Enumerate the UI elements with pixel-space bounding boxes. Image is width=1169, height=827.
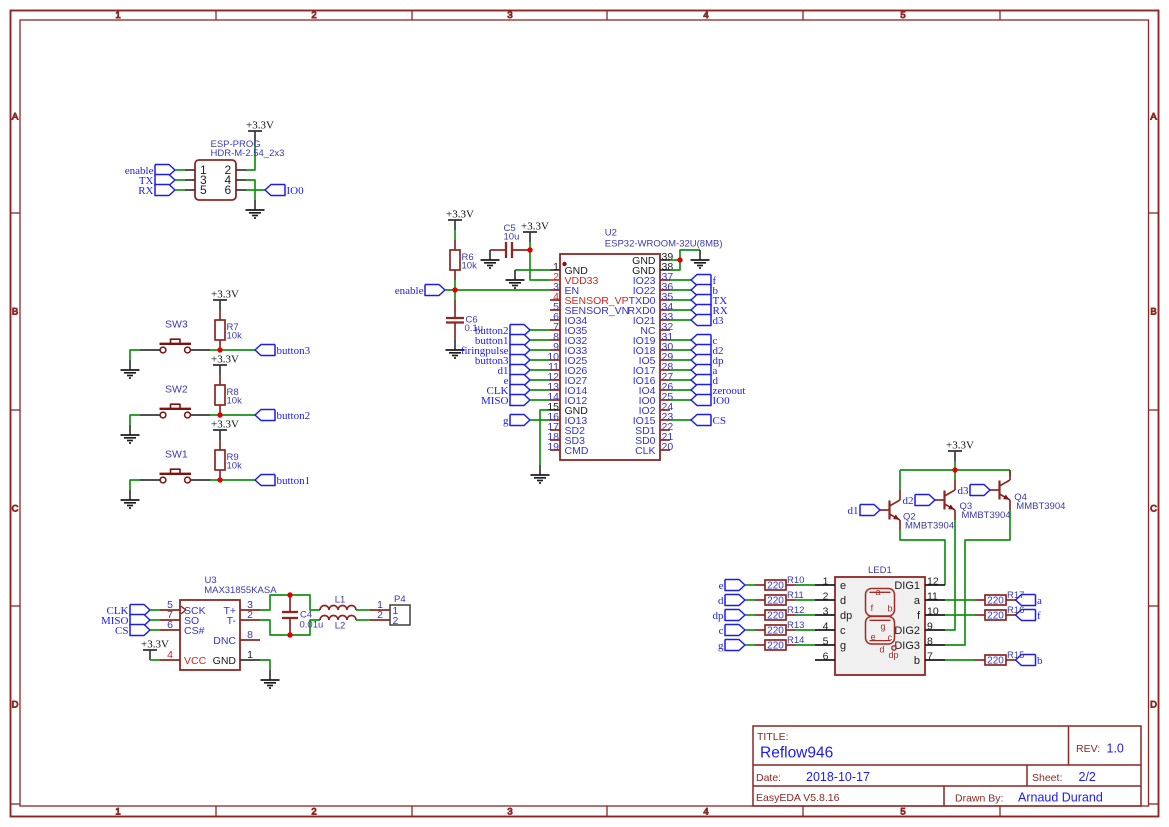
svg-text:2/2: 2/2 [1079,770,1096,784]
net flag TX [691,295,727,307]
svg-text:button1: button1 [277,475,311,487]
svg-text:220: 220 [987,655,1004,666]
svg-text:a: a [1037,595,1042,607]
svg-text:MMBT3904: MMBT3904 [1016,501,1065,512]
svg-text:220: 220 [987,595,1004,606]
wire [260,660,270,670]
svg-text:b: b [914,655,920,667]
svg-text:3: 3 [507,807,512,818]
resistor R10 [755,575,804,591]
svg-text:c: c [840,625,846,637]
node T- [287,632,292,637]
svg-text:220: 220 [767,625,784,636]
svg-text:7: 7 [927,651,933,663]
wire [670,399,691,401]
resistor R13 [755,620,804,636]
svg-text:dp: dp [713,610,725,622]
net flag button2 [475,325,530,337]
net flag button3 [255,345,311,357]
svg-text:R16: R16 [1007,605,1024,616]
wire [745,629,755,631]
capacitor C6 0.1u [446,300,483,340]
wire [900,530,945,585]
resistor R16 [975,605,1024,621]
wire [130,480,140,490]
ground (U2 pin15) [531,465,550,483]
wire +3.3V rail [900,469,1010,471]
svg-text:DNC: DNC [213,635,236,647]
net flag TX [139,175,175,187]
svg-text:SW3: SW3 [165,319,188,331]
svg-text:20: 20 [662,441,674,453]
wire [745,614,755,616]
net flag f [691,275,717,287]
node T+ [287,592,292,597]
node +3.3V rail [952,467,957,472]
net flag button3 [475,355,530,367]
wire [945,510,1010,645]
wire [945,614,975,616]
svg-text:10: 10 [927,606,939,618]
svg-text:10u: 10u [504,232,520,243]
svg-text:220: 220 [767,595,784,606]
net flag dp [713,610,746,622]
svg-text:g: g [840,640,846,652]
wire [530,379,550,381]
wire [260,595,320,610]
ground (SW1) [121,490,140,508]
net flag MISO [101,615,150,627]
svg-text:GND: GND [213,655,237,667]
svg-text:10k: 10k [227,461,243,472]
svg-text:A: A [1150,112,1157,123]
ground (ESP-PROG pin4/6) [246,200,265,218]
svg-text:d1: d1 [848,505,859,517]
wire [246,180,255,200]
wire [670,369,691,371]
svg-text:T-: T- [227,615,237,627]
+3.3V power (R8) [211,354,239,376]
wire [530,399,550,401]
ground (U2 pin1) [506,270,525,288]
svg-text:button2: button2 [277,410,311,422]
display LED1 (3-digit 7-segment) [815,565,945,675]
svg-text:10k: 10k [227,396,243,407]
svg-text:MISO: MISO [481,395,509,407]
inductor L2 [320,616,356,632]
resistor R11 [755,590,804,606]
wire [530,339,550,341]
net flag d [718,595,745,607]
net flag CS [115,625,150,637]
switch SW1 [140,449,210,483]
svg-text:CS: CS [115,625,128,637]
wire [670,289,691,291]
svg-text:SW1: SW1 [165,449,188,461]
svg-text:220: 220 [767,640,784,651]
header ESP-PROG HDR-M-2.54_2x3 [185,139,284,200]
wire [899,470,901,490]
wire [670,319,691,321]
capacitor C5 10u [490,223,530,258]
ground (SW2) [121,425,140,443]
resistor R12 [755,605,804,621]
svg-text:DIG1: DIG1 [894,580,920,592]
wire [670,419,691,421]
transistor Q2 [880,490,954,532]
wire [670,259,680,261]
transistor Q3 [935,480,1011,521]
svg-text:L2: L2 [335,621,346,632]
wire [530,419,550,421]
svg-text:f: f [1037,610,1041,622]
svg-text:L1: L1 [335,595,346,606]
net flag b [691,285,719,297]
svg-text:B: B [12,307,18,318]
resistor R9 [215,440,242,480]
wire [530,369,550,371]
svg-text:6: 6 [167,619,173,631]
net flag d3 [958,485,991,497]
svg-text:+3.3V: +3.3V [211,419,239,431]
svg-text:8: 8 [927,636,933,648]
wire [175,179,185,181]
svg-text:C: C [1150,504,1157,515]
wire [175,189,185,191]
wire [796,629,816,631]
net flag firingpulse [461,345,530,357]
svg-text:3: 3 [507,10,512,21]
svg-text:19: 19 [547,441,559,453]
net flag d1 [498,365,531,377]
wire [945,520,955,630]
svg-text:2: 2 [247,609,253,621]
wire [796,614,816,616]
wire [945,659,975,661]
svg-text:g: g [718,640,724,652]
svg-text:2018-10-17: 2018-10-17 [806,770,870,784]
wire [210,349,255,351]
net flag IO0 [691,395,730,407]
wire [954,461,956,470]
svg-text:HDR-M-2.54_2x3: HDR-M-2.54_2x3 [211,148,285,159]
svg-text:1: 1 [823,576,829,588]
wire [670,379,691,381]
svg-text:a: a [876,587,881,597]
+3.3V power (VDD33) [521,221,549,243]
svg-text:CLK: CLK [635,445,655,457]
svg-text:TITLE:: TITLE: [757,731,789,743]
svg-text:+3.3V: +3.3V [211,354,239,366]
svg-text:d: d [880,645,885,655]
wire [260,620,320,635]
net flag f [1016,610,1042,622]
node EN [452,287,457,292]
net flag net flag enable (EN) [395,285,445,297]
svg-text:220: 220 [767,580,784,591]
ground (SW3) [121,360,140,378]
svg-text:RX: RX [138,185,153,197]
net flag RX [691,305,728,317]
svg-text:d: d [718,595,724,607]
+3.3V power (R9) [211,419,239,441]
IC U2 ESP32-WROOM-32U(8MB) [547,228,722,461]
wire [130,415,140,425]
svg-text:SW2: SW2 [165,384,188,396]
svg-text:ESP32-WROOM-32U(8MB): ESP32-WROOM-32U(8MB) [605,238,723,249]
svg-text:IO0: IO0 [713,395,731,407]
svg-text:2: 2 [311,807,316,818]
wire [670,339,691,341]
wire [796,584,816,586]
connector P4 [370,594,410,627]
wire [356,609,370,611]
svg-text:g: g [881,622,886,632]
svg-text:Arnaud Durand: Arnaud Durand [1018,791,1103,805]
svg-text:CS#: CS# [184,625,205,637]
ground (U2 pins 38/39) [691,250,710,268]
wire [540,410,550,465]
net flag d1 [848,505,881,517]
svg-text:LED1: LED1 [868,565,892,576]
node button2 [217,412,222,417]
svg-text:d3: d3 [958,485,970,497]
wire [356,619,370,621]
node VDD33 [527,247,532,252]
svg-text:6: 6 [225,183,232,197]
resistor R15 [975,650,1024,666]
wire [945,599,975,601]
svg-text:e: e [719,580,724,592]
svg-text:1.0: 1.0 [1107,742,1124,756]
svg-text:5: 5 [823,636,829,648]
svg-text:+3.3V: +3.3V [141,639,169,651]
svg-text:e: e [840,580,846,592]
net flag RX [138,185,175,197]
wire [150,629,160,631]
net flag e [719,580,745,592]
wire [745,584,755,586]
resistor R14 [755,635,804,651]
net flag a [691,365,718,377]
svg-text:U2: U2 [605,228,617,239]
svg-text:e: e [871,632,876,642]
wire [246,189,265,191]
+3.3V power (R6) [446,209,474,231]
net flag CS [691,415,726,427]
svg-text:REV:: REV: [1076,743,1100,755]
net flag a [1016,595,1043,607]
resistor R6 [450,240,477,280]
svg-text:8: 8 [247,629,253,641]
wire [454,230,456,240]
wire [670,349,691,351]
svg-text:220: 220 [987,610,1004,621]
wire [175,169,185,171]
wire [796,644,816,646]
svg-text:d2: d2 [903,495,914,507]
wire [150,609,160,611]
svg-text:11: 11 [927,591,938,603]
wire [530,389,550,391]
wire [150,659,160,661]
+3.3V power (R7) [211,289,239,311]
net flag IO0 [265,185,304,197]
svg-text:d3: d3 [713,315,725,327]
svg-text:b: b [888,604,893,614]
wire [246,141,255,170]
net flag c [719,625,745,637]
wire [150,619,160,621]
net flag dp [691,355,724,367]
svg-text:5: 5 [900,10,905,21]
svg-text:R17: R17 [1007,590,1024,601]
svg-text:12: 12 [927,576,939,588]
net flag CLK [487,385,531,397]
svg-text:2: 2 [823,591,829,603]
net flag d3 [691,315,724,327]
svg-text:c: c [888,633,893,643]
svg-text:a: a [914,595,921,607]
svg-text:Drawn By:: Drawn By: [955,793,1003,805]
svg-text:CMD: CMD [565,445,589,457]
wire [670,260,680,270]
svg-text:4: 4 [703,807,708,818]
svg-text:Reflow946: Reflow946 [760,745,833,762]
resistor R17 [975,590,1024,606]
net flag enable [125,165,175,177]
wire [670,279,691,281]
svg-text:4: 4 [703,10,708,21]
node U2 GND [677,257,682,262]
svg-text:2: 2 [377,609,383,621]
svg-text:9: 9 [927,621,933,633]
svg-text:5: 5 [200,183,207,197]
switch SW2 [140,384,210,418]
wire [130,350,140,360]
net flag c [691,335,718,347]
net flag zeroout [691,385,745,397]
ground (U3 GND) [261,670,280,688]
svg-text:4: 4 [823,621,829,633]
svg-text:MAX31855KASA: MAX31855KASA [204,585,277,596]
net flag CLK [107,605,151,617]
svg-text:MMBT3904: MMBT3904 [905,521,954,532]
net flag e [504,375,530,387]
net flag button1 [255,475,310,487]
net flag button1 [475,335,530,347]
net flag MISO [481,395,530,407]
+3.3V power (U3 VCC) [141,639,169,661]
net flag d [691,375,719,387]
ground (C5) [481,250,500,268]
IC U3 MAX31855KASA [160,575,277,670]
svg-text:EasyEDA V5.8.16: EasyEDA V5.8.16 [756,792,840,804]
net flag b [1016,655,1044,667]
svg-text:dp: dp [840,610,852,622]
svg-text:2: 2 [311,10,316,21]
node button1 [217,477,222,482]
wire [515,269,550,271]
svg-text:enable: enable [395,285,424,297]
net flag g [503,415,530,427]
svg-text:+3.3V: +3.3V [946,440,974,452]
svg-text:Date:: Date: [756,772,781,784]
net flag d2 [903,495,936,507]
svg-text:B: B [1150,307,1156,318]
svg-text:1: 1 [247,649,253,661]
svg-text:b: b [1037,655,1043,667]
resistor R7 [215,310,242,350]
svg-text:c: c [719,625,724,637]
wire [954,470,956,480]
svg-text:button3: button3 [277,345,311,357]
+3.3V power (digit drivers) [946,440,974,462]
svg-text:3: 3 [823,606,829,618]
+3.3V power (ESP-PROG) [246,120,274,142]
svg-text:+3.3V: +3.3V [211,289,239,301]
svg-text:6: 6 [823,651,829,663]
wire [529,242,531,250]
wire [680,250,700,260]
net flag g [718,640,745,652]
svg-text:5: 5 [900,807,905,818]
wire [454,280,456,290]
svg-text:+3.3V: +3.3V [521,221,549,233]
title block [753,726,1141,806]
svg-text:1: 1 [115,807,120,818]
capacitor C4 0.01u [282,595,323,635]
wire [530,329,550,331]
svg-text:C: C [12,504,19,515]
wire [1009,470,1011,476]
svg-text:VCC: VCC [184,655,207,667]
ground (C6) [446,340,465,358]
svg-text:CS: CS [713,415,726,427]
wire [670,299,691,301]
net flag button2 [255,410,310,422]
svg-text:10k: 10k [462,261,478,272]
wire [670,309,691,311]
svg-text:MMBT3904: MMBT3904 [962,510,1011,521]
inductor L1 [320,595,356,610]
svg-text:D: D [12,700,19,711]
node button3 [217,347,222,352]
wire [454,290,456,300]
svg-text:220: 220 [767,610,784,621]
resistor R8 [215,375,242,415]
svg-text:d: d [840,595,846,607]
svg-text:+3.3V: +3.3V [446,209,474,221]
svg-text:DIG2: DIG2 [894,625,920,637]
wire [745,599,755,601]
net flag d2 [691,345,724,357]
svg-text:R15: R15 [1007,650,1024,661]
wire [210,479,255,481]
svg-text:1: 1 [115,10,120,21]
svg-text:g: g [503,415,509,427]
svg-text:D: D [1150,700,1157,711]
svg-text:P4: P4 [394,594,406,605]
svg-text:10k: 10k [227,331,243,342]
wire [670,389,691,391]
svg-text:0.01u: 0.01u [300,620,324,631]
svg-text:2: 2 [393,615,399,627]
wire [530,250,550,280]
switch SW3 [140,319,210,353]
svg-text:IO0: IO0 [287,185,305,197]
wire [670,359,691,361]
